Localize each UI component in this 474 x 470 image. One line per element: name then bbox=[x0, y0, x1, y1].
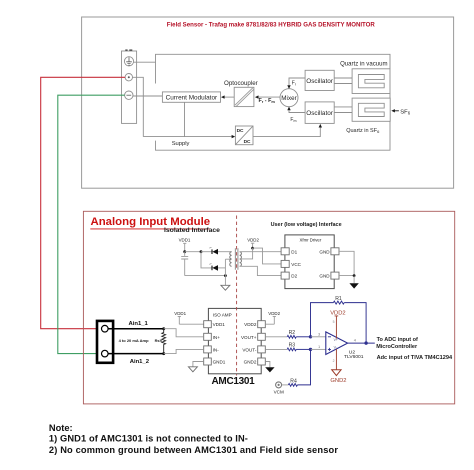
op-amp V- to GND2 bbox=[335, 349, 337, 370]
op-amp U2 triangle bbox=[326, 332, 348, 355]
wire: secondary tap to ground rail bbox=[225, 259, 231, 275]
svg-text:VCC: VCC bbox=[291, 262, 301, 267]
field sensor outer enclosure box bbox=[82, 17, 454, 188]
svg-text:VDD2: VDD2 bbox=[268, 311, 280, 316]
svg-text:5: 5 bbox=[333, 320, 335, 324]
ground GND2 (driver, solid) bbox=[353, 276, 355, 284]
transformer T1 secondary (isolated side) winding bbox=[230, 252, 232, 267]
svg-text:SF6: SF6 bbox=[400, 109, 410, 115]
svg-text:Current Modulator: Current Modulator bbox=[166, 95, 218, 102]
svg-text:V+: V+ bbox=[334, 338, 338, 342]
svg-text:2: 2 bbox=[333, 359, 335, 363]
junction driver ground node bbox=[353, 274, 356, 277]
VDD1 power tick bbox=[183, 243, 186, 251]
wire: transformer primary bottom to driver D2 bbox=[240, 266, 282, 275]
svg-text:ISO AMP: ISO AMP bbox=[213, 312, 232, 317]
wire: transformer primary top to driver D1 bbox=[240, 251, 282, 253]
green wire: - loop to Ain1_2 bbox=[58, 95, 125, 353]
svg-text:Quartz in SF6: Quartz in SF6 bbox=[346, 128, 380, 134]
red wire: + loop to Ain1_1 bbox=[41, 77, 125, 328]
terminal: protective earth bbox=[124, 57, 133, 66]
svg-text:Xfmr Driver: Xfmr Driver bbox=[300, 238, 322, 243]
mixer U-MIX bbox=[280, 89, 298, 107]
wire R3 to non-inverting node bbox=[296, 348, 310, 350]
op-amp + input mark bbox=[328, 348, 331, 351]
arrow into current modulator bbox=[221, 95, 225, 98]
svg-text:D1: D1 bbox=[291, 249, 297, 254]
svg-text:Field Sensor - Trafag make 878: Field Sensor - Trafag make 8781/82/83 HY… bbox=[167, 21, 376, 28]
svg-text:IN-: IN- bbox=[213, 347, 220, 352]
ground GND2 (op-amp, open dark red) bbox=[332, 370, 341, 376]
svg-text:GND: GND bbox=[319, 274, 330, 279]
svg-text:Ain1_1: Ain1_1 bbox=[129, 321, 149, 327]
svg-text:GND: GND bbox=[319, 249, 330, 254]
svg-text:Fr - Fm: Fr - Fm bbox=[259, 98, 276, 104]
svg-text:VOUT+: VOUT+ bbox=[241, 335, 257, 340]
svg-text:GND2: GND2 bbox=[330, 378, 346, 384]
svg-text:VDD1: VDD1 bbox=[179, 238, 191, 243]
wire: optocoupler to current modulator bbox=[225, 96, 235, 98]
svg-text:MicroController: MicroController bbox=[376, 344, 418, 350]
ground rail (isolated side) bbox=[185, 275, 226, 277]
analog input module box bbox=[83, 211, 454, 404]
sensor inner frame (left edge segments, top, right, bottom) bbox=[156, 54, 391, 150]
VDD2 power tick bbox=[251, 243, 254, 248]
svg-text:GND2: GND2 bbox=[244, 360, 257, 365]
svg-text:GND1: GND1 bbox=[213, 360, 226, 365]
wire: driver GND pins join bbox=[339, 251, 354, 275]
junction diode node bbox=[200, 250, 203, 253]
isolation amplifier U-AMC1301 box bbox=[208, 308, 261, 373]
svg-text:IN+: IN+ bbox=[213, 335, 221, 340]
transformer T1 core bbox=[235, 248, 238, 269]
transformer driver U1 box bbox=[285, 235, 334, 289]
svg-text:R4: R4 bbox=[290, 379, 297, 385]
svg-text:D2: D2 bbox=[291, 274, 297, 279]
capacitor C1 on VDD1 bbox=[181, 252, 188, 276]
wire: earth terminal to sensor frame bbox=[134, 61, 156, 63]
svg-text:DC: DC bbox=[237, 128, 244, 134]
junction shunt bottom bbox=[162, 352, 165, 355]
terminal Ain1_2 bbox=[102, 350, 109, 357]
pin IN+ bbox=[204, 333, 212, 340]
svg-text:TLV6001: TLV6001 bbox=[344, 354, 364, 360]
wire: mixer to optocoupler, net Fr - Fm bbox=[258, 96, 280, 98]
svg-text:Mixer: Mixer bbox=[281, 95, 296, 102]
wire R2 to inverting node bbox=[296, 336, 310, 338]
wire VOUT- to R3 bbox=[265, 348, 287, 350]
pin VDD1 bbox=[204, 321, 212, 328]
ground GND2 solid (AMC right) bbox=[265, 362, 270, 368]
svg-text:Supply: Supply bbox=[172, 141, 190, 147]
oscillator 2 (SF6 measuring) bbox=[305, 102, 334, 124]
pin VDD2 bbox=[258, 321, 266, 328]
pin IN- bbox=[204, 346, 212, 353]
wire: - terminal to current modulator bbox=[133, 95, 162, 97]
DC/DC converter bbox=[235, 126, 253, 145]
wire node to op-amp + input bbox=[311, 348, 326, 350]
terminal: - (current loop) bbox=[125, 91, 133, 99]
junction VDD1 node bbox=[183, 250, 186, 253]
wire R4 to non-inverting node bbox=[297, 349, 310, 385]
diode D1 (rectifier top) bbox=[201, 251, 212, 253]
wire shunt bottom to IN- bbox=[164, 349, 204, 353]
wire Ain1_2 bbox=[108, 353, 164, 355]
svg-text:Ain1_2: Ain1_2 bbox=[130, 359, 150, 365]
svg-text:1) GND1 of AMC1301 is not conn: 1) GND1 of AMC1301 is not connected to I… bbox=[49, 434, 248, 444]
svg-text:Isolated Interface: Isolated Interface bbox=[164, 227, 220, 234]
junction inverting input node bbox=[309, 335, 312, 338]
pin GND (bottom) bbox=[331, 272, 339, 279]
wire: current modulator to supply rail bbox=[184, 102, 186, 136]
wire: oscillator 1 to mixer, net Fr bbox=[289, 78, 305, 85]
pin VOUT- bbox=[258, 346, 266, 353]
svg-text:Optocoupler: Optocoupler bbox=[224, 80, 258, 87]
wire Ain1_1 bbox=[108, 328, 164, 330]
svg-text:VOUT-: VOUT- bbox=[242, 347, 257, 352]
svg-text:VDD1: VDD1 bbox=[213, 322, 226, 327]
wire: VDD2 node to driver VCC bbox=[253, 248, 282, 264]
wire node to op-amp - input bbox=[311, 336, 326, 338]
svg-text:Adc input of TIVA TM4C1294: Adc input of TIVA TM4C1294 bbox=[377, 355, 453, 361]
arrow into DC/DC bbox=[232, 135, 236, 138]
wire: VDD2 node to primary centre tap bbox=[240, 248, 253, 259]
wire VOUT+ to R2 bbox=[265, 336, 287, 338]
pin VCC bbox=[281, 260, 289, 267]
svg-text:VDD2: VDD2 bbox=[244, 322, 257, 327]
pin GND1 bbox=[204, 358, 212, 365]
svg-text:4 to 20 mA Amp: 4 to 20 mA Amp bbox=[119, 338, 149, 343]
terminal: + (current loop) bbox=[125, 74, 132, 81]
svg-text:Quartz in vacuum: Quartz in vacuum bbox=[340, 62, 387, 68]
quartz 1 tuning fork bbox=[358, 75, 384, 88]
svg-text:Note:: Note: bbox=[49, 423, 73, 433]
SF6 gas inlet arrow bbox=[393, 110, 399, 112]
transformer T1 primary (driver side) winding bbox=[240, 252, 242, 267]
isolation barrier dashed line bbox=[236, 216, 238, 376]
wire: DC/DC output to oscillator 2 supply bbox=[253, 125, 320, 136]
junction non-inverting input node bbox=[309, 348, 312, 351]
ground GND1 open (AMC left) bbox=[193, 362, 204, 367]
svg-text:User (low voltage) Interface: User (low voltage) Interface bbox=[271, 222, 342, 228]
svg-text:2) No common ground between AM: 2) No common ground between AMC1301 and … bbox=[49, 445, 338, 455]
svg-text:Oscillator: Oscillator bbox=[306, 110, 334, 117]
svg-text:Oscillator: Oscillator bbox=[306, 78, 334, 85]
quartz 1 enclosure (vacuum) bbox=[352, 69, 390, 94]
pin GND (top) bbox=[331, 248, 339, 255]
junction output node bbox=[364, 341, 367, 344]
VCM terminal bbox=[276, 382, 282, 388]
wire: supply rail to DC/DC bbox=[143, 136, 232, 138]
wire: oscillator 2 to mixer, net Fm bbox=[289, 110, 305, 112]
diode D2 (rectifier bottom) bbox=[201, 252, 212, 268]
wire VDD1 node to diode node bbox=[185, 251, 201, 253]
quartz 2 tuning fork bbox=[358, 103, 384, 116]
pin GND2 bbox=[258, 358, 266, 365]
connector X1 (field terminals) bbox=[122, 51, 137, 123]
pin VOUT+ bbox=[258, 333, 266, 340]
svg-text:VCM: VCM bbox=[274, 390, 284, 395]
op-amp output wire bbox=[348, 342, 375, 344]
wire shunt top to IN+ bbox=[164, 329, 204, 337]
junction shunt top bbox=[162, 327, 165, 330]
svg-text:To ADC input of: To ADC input of bbox=[377, 337, 418, 343]
svg-text:VDD2: VDD2 bbox=[247, 238, 259, 243]
junction VDD2 node bbox=[251, 247, 254, 250]
oscillator 1 (vacuum reference) bbox=[305, 70, 334, 90]
optocoupler bbox=[234, 87, 254, 106]
wires: oscillator 2 to quartz 2 bbox=[334, 107, 358, 113]
op-amp - input mark bbox=[328, 336, 331, 338]
wire: + terminal to supply rail bbox=[133, 77, 144, 136]
connector top tick marks bbox=[125, 49, 132, 51]
quartz 2 enclosure (SF6) bbox=[352, 98, 390, 121]
svg-text:DC: DC bbox=[244, 139, 251, 145]
input connector (black) bbox=[97, 321, 113, 363]
junction ground rail node bbox=[224, 274, 227, 277]
svg-text:VDD1: VDD1 bbox=[174, 311, 186, 316]
current modulator U-CM bbox=[162, 92, 220, 102]
svg-text:AMC1301: AMC1301 bbox=[212, 376, 256, 387]
ground GND1 (isolated, open) bbox=[224, 276, 226, 286]
terminal Ain1_1 bbox=[102, 325, 109, 332]
pin D2 bbox=[281, 272, 289, 279]
pin D1 bbox=[281, 248, 289, 255]
wires: oscillator 1 to quartz 1 bbox=[334, 78, 358, 84]
